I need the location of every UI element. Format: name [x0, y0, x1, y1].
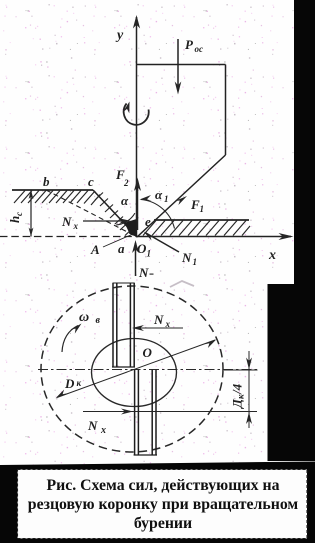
drill body top line [137, 64, 226, 66]
right surface hatch [143, 221, 250, 236]
slope hatch along c-slant [95, 193, 133, 236]
svg-text:резцовую коронку при вращатель: резцовую коронку при вращательном [28, 496, 299, 513]
D_k diameter dimension line [57, 340, 215, 398]
h_c bottom arrowhead [29, 228, 34, 237]
N lower segment [135, 243, 137, 276]
bottom dashed level line [0, 236, 137, 238]
svg-text:ω: ω [79, 310, 89, 325]
svg-text:N: N [138, 265, 149, 280]
svg-text:О: О [137, 241, 147, 256]
F2 line [137, 181, 139, 230]
N_x lower arrow line [83, 411, 257, 413]
label h_c rotated [7, 212, 24, 223]
svg-text:х: х [73, 221, 79, 231]
svg-text:к: к [77, 378, 82, 388]
N_x upper arrow line [134, 327, 183, 329]
alpha1 angle arc [141, 200, 175, 229]
svg-text:b: b [43, 174, 50, 189]
svg-text:1: 1 [200, 204, 205, 214]
drill body right line [225, 65, 227, 156]
svg-text:P: P [185, 37, 194, 52]
svg-text:Рис. Схема сил, действующих н: Рис. Схема сил, действующих на [46, 477, 279, 494]
svg-text:/4: /4 [230, 383, 245, 395]
N1 arrowhead [144, 232, 155, 241]
y-axis arrowhead [133, 15, 140, 29]
svg-text:е: е [145, 214, 151, 229]
top blade bar [112, 283, 135, 367]
tip filled wedge [125, 219, 137, 237]
horizontal centerline [38, 369, 257, 371]
svg-text:N: N [61, 214, 72, 229]
svg-text:N: N [181, 250, 192, 265]
black strip right lower [268, 284, 316, 461]
dashed b-tip line [46, 190, 137, 237]
x-axis arrowhead [279, 233, 294, 240]
svg-text:а: а [118, 241, 125, 256]
big dashed circle D_k [41, 286, 223, 452]
left surface line [12, 189, 93, 191]
black strip right upper [294, 0, 315, 284]
svg-text:y: y [115, 28, 124, 43]
c-slant rake line [93, 190, 137, 237]
svg-text:в: в [96, 315, 101, 326]
svg-text:бурении: бурении [134, 515, 192, 532]
drill body slant / F1 line [137, 155, 226, 237]
left surface hatch [14, 191, 100, 206]
arrowheads upper figure [29, 15, 294, 253]
N arrowhead [132, 240, 139, 253]
caption white box [18, 470, 308, 539]
svg-text:c: c [88, 174, 94, 189]
N1 line [145, 233, 179, 253]
svg-text:х: х [100, 425, 106, 436]
inner circle [92, 339, 177, 407]
svg-text:с: с [14, 212, 24, 216]
svg-text:α: α [121, 193, 129, 208]
right surface top line [154, 219, 249, 221]
P_oc force line [177, 39, 179, 90]
h_c top arrowhead [29, 190, 34, 199]
D_k/4 dimension [248, 351, 250, 428]
alpha angle arc (small, left of axis) [116, 213, 135, 225]
svg-text:2: 2 [123, 178, 129, 188]
svg-text:1: 1 [164, 194, 169, 204]
x-axis [137, 236, 291, 238]
bottom blade bar [134, 370, 157, 456]
rotation arc on axis [124, 104, 149, 125]
svg-text:x: x [268, 248, 276, 263]
A leader line [103, 234, 133, 247]
svg-text:1: 1 [147, 249, 152, 259]
omega_v rotation arrow [62, 326, 78, 353]
h_c dimension line [30, 190, 32, 237]
svg-text:А: А [90, 242, 100, 257]
gray smudge [170, 281, 194, 287]
svg-text:ос: ос [195, 44, 204, 54]
labels bottom figure [64, 310, 246, 436]
svg-text:N: N [87, 418, 98, 433]
caption text [28, 477, 299, 532]
F2 arrowhead [134, 178, 141, 192]
svg-text:N: N [153, 312, 164, 327]
svg-text:α: α [155, 187, 163, 202]
svg-text:F: F [190, 197, 200, 212]
black bottom band [0, 462, 315, 543]
svg-text:D: D [64, 376, 75, 391]
N_x arrow line (upper figure) [83, 220, 128, 222]
N_x arrowhead (upper) [119, 218, 131, 224]
svg-text:1: 1 [193, 257, 198, 267]
y-axis [136, 17, 138, 237]
label D_k/4 rotated [230, 383, 246, 409]
F1 arrowhead [175, 196, 187, 205]
svg-text:х: х [165, 319, 171, 329]
svg-text:О: О [143, 345, 153, 360]
P_oc arrowhead [175, 82, 182, 95]
